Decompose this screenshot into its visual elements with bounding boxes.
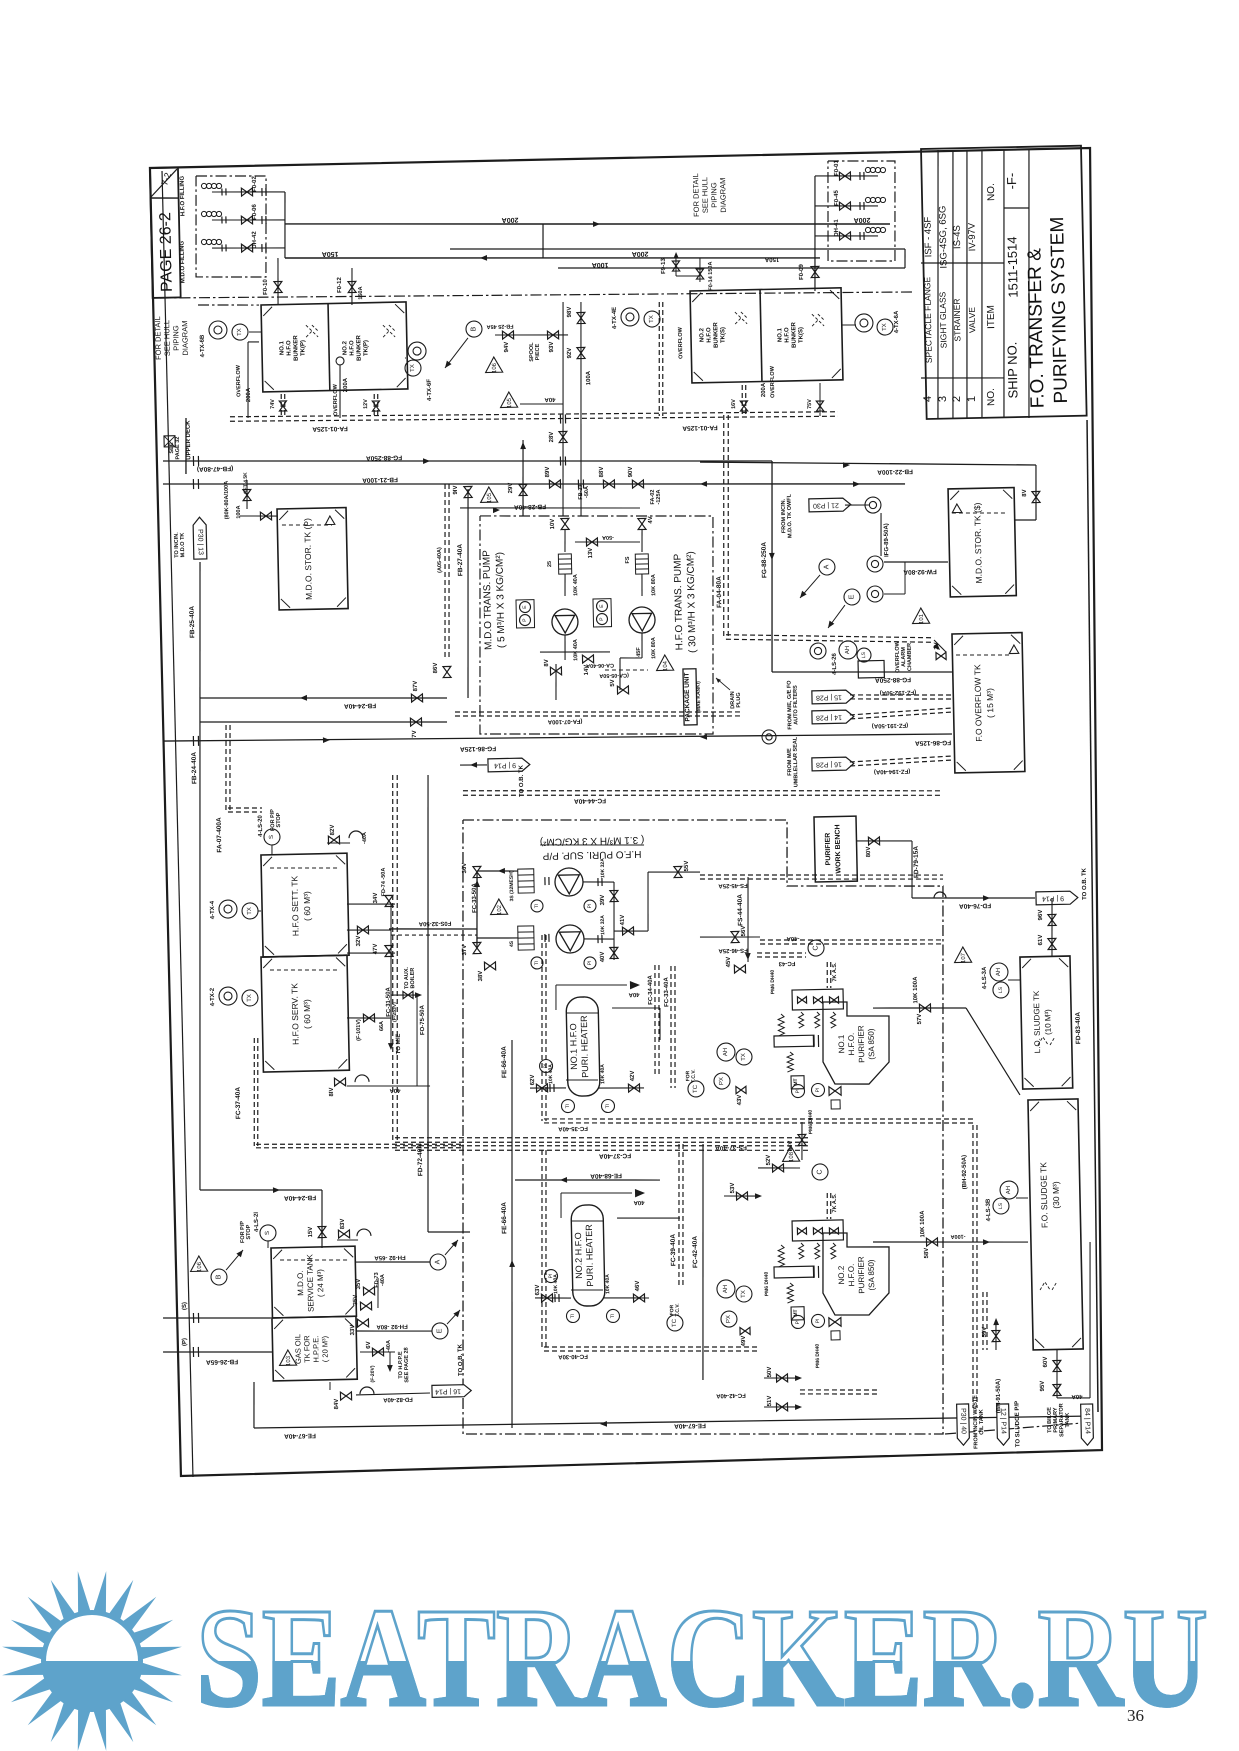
svg-text:28V: 28V [549,432,555,443]
hfo pump discharge [641,633,642,658]
sett tk transmitter 11AH/MC [219,900,237,918]
svg-text:PIECE: PIECE [535,343,541,360]
valve 49V [740,1327,750,1334]
No.1 HFO purifier outlet valve pair [829,1087,841,1096]
svg-text:105: 105 [487,492,493,503]
page box diagonal [150,169,177,197]
title block row divider 2 [947,150,958,418]
svg-text:SEE HULL: SEE HULL [162,320,172,356]
svg-text:62V: 62V [530,1075,536,1086]
svg-text:FC-33-40A: FC-33-40A [664,976,671,1006]
aux boiler arrowhead [415,992,422,998]
svg-text:FC-42-40A: FC-42-40A [715,1392,745,1399]
filling branch 1 pipe [212,190,285,193]
No.1 HFO purifier heater bottom weld line [566,1079,598,1080]
svg-text:63V: 63V [535,1285,541,1296]
svg-text:TI: TI [565,1104,571,1109]
svg-text:H.F.O TRANS. PUMP: H.F.O TRANS. PUMP [672,553,685,650]
right filling branch 1 hose coil [865,167,885,173]
svg-text:PAGE 26-2: PAGE 26-2 [157,212,176,292]
warning triangle 103 [279,1350,296,1366]
pipe FE-68-40A [515,1177,660,1183]
svg-text:-100A: -100A [950,1233,965,1239]
valve 89V [549,480,560,488]
valve 13V [586,538,597,546]
heater no2 relief line [561,1193,562,1218]
svg-text:S: S [269,835,275,839]
svg-text:5V: 5V [610,679,616,686]
alarm AH/MC circle [839,641,857,659]
valve 47V [385,945,393,956]
svg-text:(30 M³): (30 M³) [1051,1181,1062,1209]
svg-text:FD-82-40A: FD-82-40A [382,1396,412,1403]
warning triangle 106 left [485,357,502,373]
valve 51V [776,1403,787,1411]
svg-text:FC-34-40A: FC-34-40A [648,974,655,1004]
svc LS circle [260,1225,276,1241]
stub ticks S [193,1313,198,1323]
hfo train line b [641,574,644,596]
filling branch 2 pipe [212,218,285,221]
transmitter left tanks [408,342,426,360]
overflow L line b [246,342,249,418]
svg-text:FA-01-125A: FA-01-125A [312,425,348,433]
filling to tank dash-dot [198,304,259,307]
svg-text:53V: 53V [730,1183,736,1194]
package unit name box [683,669,697,725]
banner 84-P14 [1081,1404,1094,1445]
valve 50V [776,1374,787,1382]
node A bottom [430,1254,446,1270]
No.1 HFO purifier solenoid valve 2 [813,997,822,1004]
FS-44 arrowhead [745,953,751,960]
svg-text:FG-86-125A: FG-86-125A [915,739,952,747]
svg-text:OVERFLOW: OVERFLOW [770,365,777,398]
svg-text:BUNKER: BUNKER [356,334,363,360]
header right b [647,872,649,931]
drain plug arrow line [716,678,730,691]
pipe connector at 905 [904,249,907,268]
overflow drop S1 line [819,383,820,416]
svg-text:(FZ-192-50A): (FZ-192-50A) [880,689,916,696]
svg-text:T.C.V.: T.C.V. [691,1069,697,1083]
mdo train line b [564,574,567,596]
svg-text:87V: 87V [413,681,419,692]
no2 purifier TX [736,1286,752,1302]
svg-text:DH-42: DH-42 [252,231,258,249]
gauge P1 mdo [519,614,530,625]
svg-text:M.D.O FILLING: M.D.O FILLING [180,240,187,283]
node E btm arrowhead [453,1308,462,1317]
svg-text:SERVICE TANK: SERVICE TANK [305,1253,315,1312]
svg-text:PAGE 32: PAGE 32 [175,437,181,460]
right filling branch 1 valve [839,172,850,180]
valve 58V [926,1238,937,1246]
svg-text:43V: 43V [737,1095,743,1106]
No.2 HFO purifier cylinder flange [813,1266,818,1278]
svg-text:FB-24-40A: FB-24-40A [344,702,377,710]
banner 16-P28 [812,757,854,771]
overflow feed arrowhead [933,643,942,652]
svg-text:( 20 M³): ( 20 M³) [320,1335,330,1362]
purifier work bench [814,816,857,882]
svg-text:4-LS-20: 4-LS-20 [258,814,264,836]
svg-text:FA-01-125A: FA-01-125A [682,424,718,432]
svg-text:4-LS-3B: 4-LS-3B [986,1198,992,1221]
instrument stub stbd [841,324,856,327]
vent mark stor P [325,516,335,525]
No.2 HFO purifier hose 3 [831,1243,836,1259]
svg-text:12V: 12V [363,399,369,409]
hppe drop [389,1352,392,1370]
svg-text:( 60 M³): ( 60 M³) [302,999,313,1029]
svg-text:FD-83-40A: FD-83-40A [1075,1012,1083,1045]
svg-text:150A: 150A [322,250,339,257]
svg-text:CHAMBER: CHAMBER [907,643,914,671]
banner 9 line [460,764,487,765]
FZ-191 dashed [850,708,952,719]
No.2 HFO purifier feed cylinder [774,1266,814,1278]
svg-text:OVERFLOW: OVERFLOW [678,326,685,359]
svg-text:13V: 13V [588,548,594,559]
No.1 HFO purifier hose 1 [798,1012,803,1028]
svg-text:FB-25 45A: FB-25 45A [487,323,514,330]
svg-text:( 15 M³): ( 15 M³) [985,688,996,718]
valve 37V [473,942,481,953]
svg-text:74V: 74V [270,399,276,409]
svg-text:C: C [812,945,819,950]
svg-text:15 | P28: 15 | P28 [816,693,842,701]
svg-text:TI: TI [605,1104,611,1109]
svg-text:4-LS-2l: 4-LS-2l [254,1212,260,1232]
FC-37 vertical dashed [385,775,405,1140]
svg-text:FG-88-250A: FG-88-250A [366,454,403,462]
svg-text:8V: 8V [1022,489,1028,496]
40A branch [520,403,563,405]
sett tk gauge TX [242,903,258,919]
heater no1 relief top [556,983,627,986]
svg-text:4-TX-2: 4-TX-2 [210,987,216,1006]
svg-text:T.C.V.: T.C.V. [675,1303,681,1317]
svg-text:9IV: 9IV [453,485,459,494]
No.2 HFO purifier operating water dashed [827,1193,832,1219]
svg-text:36: 36 [1127,1706,1144,1725]
node E bottom [432,1323,448,1339]
heater no1 inlet line [530,1087,566,1088]
4-TX-6F stub [404,357,407,359]
right manifold riser [813,176,818,291]
svg-text:82V: 82V [330,825,336,836]
No.2 HFO purifier solenoid valve 1 [797,1228,806,1235]
warning triangle 101 [912,608,929,624]
svg-text:PM6 DH40: PM6 DH40 [770,970,777,995]
svg-text:PURIFIER: PURIFIER [857,1256,867,1294]
No.2 HFO purifier hose 1 [799,1243,804,1259]
overflow alarm chamber box [858,660,884,678]
No.1 HFO purifier heater top weld line [566,1012,598,1013]
page box divider [150,197,178,198]
valve 38V [484,962,495,970]
supply pump no2 [556,925,585,954]
heater no1 inlet flanges [550,1084,554,1092]
svg-text:106: 106 [492,362,498,373]
svg-text:AH: AH [1006,1186,1012,1194]
svg-text:FB-28-40A: FB-28-40A [514,503,547,511]
FO-14 drop [699,258,700,282]
scanned piping diagram (tilted ~1.2deg) [138,146,1117,1478]
FE-66 arrowhead [509,1260,515,1267]
svg-text:P30 | 40: P30 | 40 [959,1408,967,1434]
svg-text:F0-09: F0-09 [799,264,805,280]
svg-text:F0-12: F0-12 [337,276,343,292]
valve 29V [519,484,527,495]
sett vent line [327,842,350,845]
serv tank vent [355,1075,369,1082]
arrow FE-68 [560,1177,567,1183]
svg-text:10K 32A: 10K 32A [600,858,606,878]
svg-text:(FZ-194-40A): (FZ-194-40A) [874,768,910,775]
svg-text:8V: 8V [544,659,550,666]
svg-text:100A: 100A [236,505,242,518]
svg-text:25: 25 [547,561,553,567]
svg-text:FH-92 -80A: FH-92 -80A [376,1323,408,1330]
svg-text:108: 108 [789,1151,795,1162]
valve FO-13 [672,261,679,271]
svg-text:CA-06-40A: CA-06-40A [586,662,614,669]
51V line [764,1406,800,1407]
supply pump no1 [555,868,584,897]
MDO pump gauge panel [516,600,535,628]
svg-text:FE-66-40A: FE-66-40A [501,1202,509,1234]
50V line [764,1377,800,1379]
svg-text:4-TX-6A: 4-TX-6A [894,310,900,333]
svg-text:42V: 42V [630,1071,636,1082]
valve 33V [357,1319,368,1327]
svg-text:PM6 DH40: PM6 DH40 [764,1272,771,1297]
tank internal mark 1 [306,325,318,337]
FO sludge LS [993,1198,1009,1214]
svg-text:(S): (S) [182,1302,188,1310]
flange ticks riser a [560,456,565,465]
valve column vertical [388,904,393,1032]
arrow FB-21 line [700,481,707,487]
FO sludge AH/MC [1000,1181,1018,1199]
MDO filling station boundary (right) [826,160,897,263]
overflow valve P2 [372,401,379,411]
filling branch 3 valve [241,244,252,252]
svg-text:FC-35-40A: FC-35-40A [557,1125,587,1132]
No.2 HFO purifier heater bottom weld line [571,1289,603,1290]
sup pump PI b [584,957,596,969]
svg-text:FE-67-40A: FE-67-40A [674,1422,706,1430]
node E arrowhead [826,621,835,630]
svg-text:TX: TX [410,364,416,372]
svg-text:21 | P30: 21 | P30 [813,501,839,509]
no1 purifier TX [736,1049,752,1065]
overflow drop dashed left-1 [281,394,285,417]
banner 21-P30 [809,498,851,512]
warning triangle 105 pumps [480,487,497,503]
watermark sun logo disc [41,1610,143,1712]
svg-text:SIGHT GLASS: SIGHT GLASS [937,291,948,348]
discharge flanges b [598,935,602,943]
svg-text:FE-67-40A: FE-67-40A [284,1432,316,1440]
valve FO-14 [696,269,703,279]
svg-text:( 5 M³/H X 3 KG/CM²): ( 5 M³/H X 3 KG/CM²) [494,552,507,648]
valve 44V [798,1134,806,1145]
svg-text:29V: 29V [508,483,514,494]
svg-text:10K 40A: 10K 40A [600,1064,606,1084]
svg-text:B: B [470,326,477,331]
arrow FE-67 [600,1421,607,1427]
filling branch 3 hose coil [201,239,221,245]
svg-text:A: A [823,564,830,569]
pipe FB-24-40A vertical [190,698,211,1190]
title block row divider 3 [961,150,972,418]
no2 purifier AH/MC [717,1280,735,1298]
svg-text:( 24 M³): ( 24 M³) [316,1269,326,1298]
heater no1 TI right [601,1099,614,1112]
stub ticks P [193,1347,198,1357]
svg-text:FS-46-25A: FS-46-25A [718,947,748,954]
svg-text:40A: 40A [633,1199,645,1205]
svg-text:FO-75-50A: FO-75-50A [420,1004,427,1035]
no1 sludge diagonal [966,1007,1020,1096]
arrow FD-76 [983,895,990,901]
heater no2 TI right [606,1309,619,1322]
svg-text:M.D.O. STOR. TK (P): M.D.O. STOR. TK (P) [302,518,314,600]
LS-20 stem [271,845,273,855]
no2 heater boundary v [538,1150,550,1349]
svg-text:94V: 94V [504,342,510,353]
svg-text:96V: 96V [1038,910,1044,921]
valve 45V [734,965,745,973]
svg-text:100A: 100A [592,261,609,268]
svg-text:NO.1: NO.1 [279,340,285,355]
serv outlet line [347,1017,391,1019]
valve 14V [582,655,593,663]
manifold riser [284,192,287,258]
svg-text:S: S [265,1231,271,1235]
svg-text:FG-86-125A: FG-86-125A [460,745,497,753]
svg-text:10K 100A: 10K 100A [913,976,920,1004]
valve 52V [772,1164,783,1172]
sup pump TI a [531,900,543,912]
svg-text:SEE PAGE 28: SEE PAGE 28 [404,1347,411,1382]
No.2 HFO purifier hose 2 [815,1243,820,1259]
svg-text:A: A [434,1259,441,1264]
No.2 HFO purifier small box [831,1331,840,1340]
right filling branch 2 hose coil [865,197,885,203]
to M/E arrowhead [388,1043,394,1050]
svg-text:FE-68-40A: FE-68-40A [590,1172,622,1180]
serv tank top dashed [270,968,340,971]
upper deck line [185,418,187,474]
no1 purifier AH/MC [717,1043,735,1061]
valve 40V [610,947,618,958]
gauge P1 hfo [596,613,607,624]
51V arrowhead [795,1404,802,1410]
pipe 7V line [200,717,447,727]
No.1 HFO purifier cylinder flange [813,1035,818,1047]
aux boiler branch [391,994,420,995]
pipe FE-67-40A [254,1410,1093,1433]
overflow funnel [336,357,344,365]
overflow valve P1 [279,401,286,411]
53V arrowhead [755,1193,762,1199]
svg-text:NO.1: NO.1 [837,1034,846,1053]
H.F.O service tank [261,955,349,1072]
heater no1 outlet valve [628,1084,639,1092]
FE-67 left riser [253,1382,255,1428]
svg-text:PI: PI [587,904,593,909]
svg-text:9 | P14: 9 | P14 [494,761,516,768]
banner 16-P14 [432,1385,471,1398]
valve 8IV serv bottom [334,1078,345,1086]
svg-text:M.D.O TRANS. PUMP: M.D.O TRANS. PUMP [481,550,494,650]
valve 90V [632,480,643,488]
valve 92V [577,347,585,358]
svg-text:NO.1: NO.1 [777,327,783,342]
No.1 HFO purifier PI right [811,1083,824,1096]
valve 60V [1053,1360,1061,1371]
svg-text:9 | P14: 9 | P14 [1042,894,1064,901]
warning triangle 107 [954,947,971,963]
valve 34V [385,895,393,906]
svg-text:ISG-4SG, 6SG: ISG-4SG, 6SG [937,206,949,269]
svg-text:LS: LS [998,986,1004,993]
stub to tank join [904,562,905,594]
banner 14-P28 [812,710,854,724]
svg-text:10K 40A: 10K 40A [573,639,579,661]
no1 discharge line [873,1007,940,1010]
node B arrow line [444,338,468,368]
svg-text:FE-66-40A: FE-66-40A [501,1046,509,1078]
FA-07-400A dashed drop [224,725,232,812]
No.1 HFO purifier solenoid valve 1 [797,997,806,1004]
svg-text:TO O.B. TK: TO O.B. TK [1082,867,1089,900]
svg-text:H.F.O PURI. SUP. P/P: H.F.O PURI. SUP. P/P [542,848,641,861]
FC-42 dashed bottom [800,1388,880,1395]
mdo pump discharge [565,635,566,660]
to M/E line [390,1032,393,1048]
svg-text:M.D.O.: M.D.O. [296,1270,306,1296]
svg-text:200A: 200A [343,377,349,392]
svg-text:H.F.O.: H.F.O. [847,1264,856,1287]
svg-text:LS: LS [861,651,867,658]
IFG-89 connector [880,513,882,556]
valve 84V [340,1392,351,1400]
svg-text:OIL TANK: OIL TANK [979,1409,986,1435]
svg-text:7K A.S.: 7K A.S. [832,962,838,982]
svg-text:35V: 35V [353,1295,359,1306]
svg-text:TK(S): TK(S) [720,327,726,343]
svg-text:ISF - 4SF: ISF - 4SF [923,216,935,257]
vent mark overflow tk [1009,645,1019,654]
transfer pump package boundary [475,511,717,739]
H.F.O bunker tanks (port pair) [261,302,408,392]
FD-82 line [356,1393,430,1395]
svg-text:15V: 15V [308,1227,314,1238]
reducer symbol b [867,556,883,572]
svg-text:3: 3 [937,396,949,402]
arrow FG-88 riser [769,553,775,560]
svg-text:NO.2: NO.2 [342,340,348,355]
HFO pump gauge panel [593,599,612,627]
svg-text:FC-40-30A: FC-40-30A [557,1353,587,1360]
svg-text:4-LS-3A: 4-LS-3A [982,966,988,989]
No.2 HFO purifier spring inlet [778,1245,784,1267]
